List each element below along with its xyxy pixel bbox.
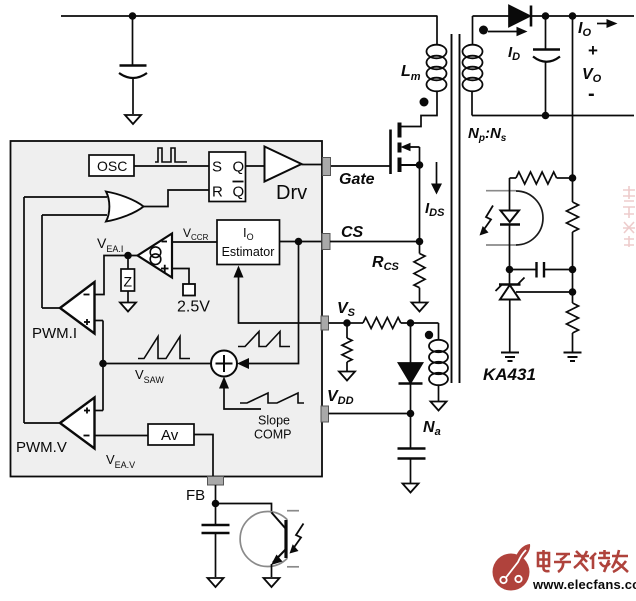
wire FB to opto collector [216, 504, 272, 514]
wire top bus [61, 15, 438, 17]
wire CS sense to summer [249, 242, 299, 364]
node VS divider [407, 319, 415, 327]
resistor RCS [372, 242, 425, 303]
svg-text:COMP: COMP [254, 428, 292, 442]
wire PWM.I output [42, 307, 60, 309]
diode output rectifier [509, 6, 531, 27]
optocoupler LED package [486, 191, 543, 245]
node feedback divider top [569, 174, 577, 182]
pulse waveform glyph [155, 148, 187, 162]
wire to earth [572, 333, 574, 352]
wire OR1 output to R input [144, 190, 210, 207]
transistor Q1 MOSFET [331, 123, 420, 175]
waveform VSAW sawtooth [138, 337, 190, 359]
pin pad FB [208, 477, 224, 486]
node CS internal [295, 238, 303, 246]
node aux phase dot [425, 331, 433, 339]
wire PWM.V output [24, 422, 60, 424]
svg-text:-: - [588, 83, 595, 105]
watermark right edge faint [623, 186, 635, 247]
light arrow into opto transistor [290, 524, 304, 554]
reference 2.5V [177, 284, 210, 316]
ground RCS [412, 303, 428, 312]
node VEA.I [124, 252, 132, 260]
wire PWM.V output loop [23, 197, 25, 423]
summer node [211, 351, 237, 377]
wire PWM.I plus stub [95, 320, 104, 322]
node LED cathode [506, 266, 514, 274]
svg-text:PWM.V: PWM.V [16, 439, 67, 456]
resistor VS shunt [342, 323, 352, 371]
svg-text:FB: FB [186, 487, 205, 504]
wire divider middle [572, 232, 574, 303]
capacitor compensation [510, 262, 573, 278]
impedance Z [121, 256, 135, 303]
wire OR1 input A [24, 196, 107, 198]
amplifier Av [148, 424, 194, 445]
wire Av to FB pad [194, 435, 213, 477]
node reference tap [569, 288, 577, 296]
ground input-cap [125, 115, 141, 124]
pin pad VDD [321, 406, 329, 422]
node FB [212, 500, 220, 508]
arrow IO [578, 19, 618, 39]
shunt regulator KA431 [496, 270, 525, 352]
buffer Drv [265, 147, 308, 205]
svg-text:Z: Z [124, 274, 133, 290]
ground Na [431, 402, 447, 411]
waveform CS sawtooth [238, 332, 290, 347]
inductor secondary winding [463, 16, 483, 116]
wire PWM.V inverting to Av [95, 435, 149, 437]
svg-text:R: R [212, 184, 223, 201]
wire PWM.V plus stub [95, 410, 104, 412]
wire source to CS node [419, 165, 421, 242]
transistor opto NPN [271, 513, 286, 578]
resistor VS series [347, 318, 439, 329]
node cap bottom [542, 112, 550, 120]
resistor opto series [510, 172, 573, 184]
node MOSFET source [416, 161, 424, 169]
wire secondary top [473, 15, 510, 17]
wire OR1 input B [42, 214, 107, 216]
op-amp gm error amplifier [138, 234, 173, 278]
node divider mid [569, 266, 577, 274]
arrow IDS [425, 162, 445, 219]
capacitor FB [202, 525, 230, 577]
wire VS pin external [329, 322, 348, 324]
gate OR1 [106, 192, 144, 222]
svg-text:S: S [212, 159, 222, 176]
ground earth divider [564, 353, 582, 362]
svg-text:Av: Av [161, 427, 179, 444]
svg-text:Drv: Drv [276, 182, 307, 204]
wire driver to Gate pin [302, 164, 323, 166]
OSC block [89, 155, 134, 176]
svg-text:KA431: KA431 [483, 365, 536, 384]
svg-text:2.5V: 2.5V [177, 299, 210, 316]
resistor divider upper [567, 202, 579, 232]
block Io Estimator [217, 220, 280, 265]
wire noninverting to 2.5V [172, 269, 189, 285]
pin pad Gate [323, 158, 331, 176]
svg-text:Gate: Gate [339, 171, 375, 188]
resistor divider lower [567, 303, 579, 333]
node cap top [542, 12, 550, 20]
wire KA431 reference [516, 291, 573, 293]
wire output minus [472, 115, 634, 117]
wire output plus [532, 15, 634, 17]
waveform slope sawtooth [240, 393, 304, 403]
node secondary phase dot [479, 26, 488, 35]
ground VDD cap [403, 484, 419, 493]
wire VSAW [103, 363, 211, 365]
wire output rail right [572, 16, 574, 202]
wire PWM.I output loop [41, 215, 43, 308]
arrowhead into summer bottom [219, 377, 229, 389]
ground earth KA431 [501, 353, 519, 362]
svg-text:CS: CS [341, 224, 364, 241]
svg-text:OSC: OSC [97, 158, 127, 174]
ground FB cap [208, 578, 224, 587]
arrow ID [488, 27, 528, 63]
wire slope comp feed [224, 387, 261, 409]
capacitor output [533, 16, 560, 116]
wire VEA.I to PWM.I inverting [95, 256, 138, 295]
svg-text:Estimator: Estimator [222, 245, 275, 259]
node rail top [569, 12, 577, 20]
arrowhead into summer right [237, 358, 249, 369]
IC controller block body [11, 141, 323, 477]
svg-text:+: + [588, 41, 598, 60]
watermark text elecfans CJK [538, 550, 628, 572]
node input-cap junction [129, 12, 137, 20]
comparator PWM.I [32, 282, 95, 342]
optocoupler transistor package [240, 511, 299, 567]
ground VS shunt [339, 372, 355, 381]
inductor Na auxiliary winding [429, 323, 448, 401]
wire VDD pin [329, 413, 411, 415]
pin pad VS [321, 316, 329, 330]
svg-text:www.elecfans.com: www.elecfans.com [532, 577, 636, 592]
svg-text:Q: Q [233, 184, 245, 201]
svg-text:Slope: Slope [258, 414, 290, 428]
wire Q to driver [246, 165, 265, 167]
wire VS pin to estimator [239, 276, 322, 323]
ground opto emitter [264, 578, 280, 587]
svg-text:PWM.I: PWM.I [32, 325, 77, 342]
latch SR [209, 152, 246, 202]
diode opto LED [500, 178, 520, 270]
arrowhead into estimator [234, 266, 244, 278]
capacitor input bulk [119, 16, 147, 114]
wire saw bus vertical [102, 321, 104, 411]
inductor Lm primary winding [400, 16, 447, 127]
comparator PWM.V [16, 398, 95, 457]
node VDD [407, 410, 415, 418]
diode VDD rectifier [399, 323, 423, 413]
wire OSC to S input [134, 165, 209, 167]
light arrow from opto LED [480, 206, 494, 236]
node saw [99, 360, 107, 368]
node primary phase dot [420, 98, 429, 107]
ground Z [120, 303, 136, 312]
svg-text:Q: Q [233, 159, 245, 176]
capacitor VDD [398, 414, 426, 484]
wire VCCR [172, 241, 217, 243]
wire estimator to CS pin [280, 241, 323, 243]
wire FB external [215, 485, 217, 525]
node VS [343, 319, 351, 327]
watermark logo elecfans [493, 544, 531, 591]
pin pad CS [322, 234, 330, 250]
transformer core [452, 34, 460, 383]
wire CS pin [330, 241, 420, 243]
node CS sense [416, 238, 424, 246]
